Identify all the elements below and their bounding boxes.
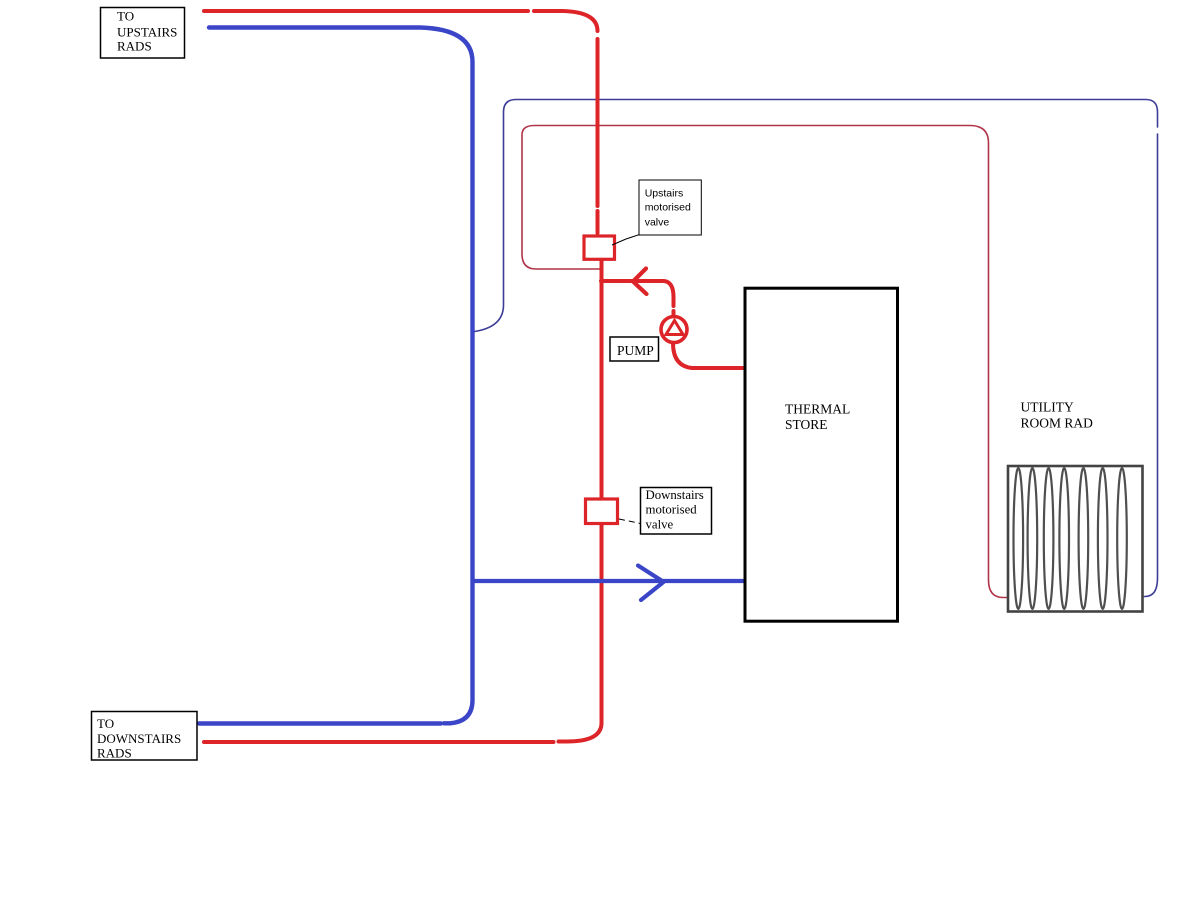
svg-text:STORE: STORE: [785, 417, 828, 432]
svg-text:Upstairs: Upstairs: [645, 187, 684, 199]
svg-text:ROOM RAD: ROOM RAD: [1021, 416, 1094, 431]
svg-text:valve: valve: [645, 216, 670, 228]
svg-text:RADS: RADS: [97, 746, 132, 761]
svg-text:valve: valve: [646, 518, 674, 532]
svg-text:motorised: motorised: [645, 202, 691, 214]
svg-text:THERMAL: THERMAL: [785, 402, 850, 417]
svg-text:TO: TO: [97, 716, 114, 731]
svg-text:PUMP: PUMP: [617, 343, 654, 358]
svg-text:UTILITY: UTILITY: [1021, 399, 1074, 414]
svg-text:Downstairs: Downstairs: [646, 488, 704, 502]
svg-text:TO: TO: [117, 9, 134, 24]
svg-text:UPSTAIRS: UPSTAIRS: [117, 24, 177, 39]
svg-text:motorised: motorised: [646, 503, 698, 517]
svg-text:RADS: RADS: [117, 38, 152, 53]
svg-text:DOWNSTAIRS: DOWNSTAIRS: [97, 731, 181, 746]
